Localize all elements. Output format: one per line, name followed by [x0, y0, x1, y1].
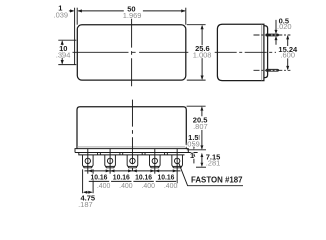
dimension 50 arrowheads — [77, 9, 186, 12]
terminal bottom extension for 7.15 — [196, 166, 206, 168]
dimension 20.5 top extension — [187, 105, 206, 107]
dimension 10 arrowheads — [61, 40, 64, 64]
mounting plate — [75, 149, 198, 153]
dimension 4.75 arrowheads — [83, 191, 93, 194]
terminal 2 hole — [107, 158, 112, 163]
extension line cover left above — [76, 8, 78, 25]
dimension 0.5 upper arrow — [275, 20, 277, 33]
terminal 4 hole — [152, 158, 157, 163]
terminal 5 hole — [174, 158, 179, 163]
svg-text:.400: .400 — [141, 181, 155, 190]
tab centerline bottom — [254, 69, 291, 71]
svg-text:.807: .807 — [193, 122, 208, 131]
dimension 1 leader — [69, 10, 73, 12]
svg-text:.400: .400 — [164, 181, 178, 190]
label underline 1 — [89, 180, 109, 182]
extension line body edge left — [74, 8, 76, 65]
side view body outline — [217, 24, 264, 80]
svg-text:.394: .394 — [56, 50, 71, 59]
terminal tab top (edge-on) — [266, 34, 279, 36]
svg-text:1: 1 — [190, 151, 194, 160]
terminal 1 center extension — [87, 149, 89, 174]
top view body outline — [77, 25, 186, 80]
dimension 25.6 extension lines — [187, 25, 206, 80]
dimension 10.16 chain line — [85, 170, 181, 172]
cover bottom edge (gray) — [77, 146, 186, 148]
svg-text:.059: .059 — [185, 139, 200, 148]
svg-text:.039: .039 — [53, 10, 68, 19]
dimension 7.15 line — [201, 157, 203, 163]
dimension 10 extension ticks — [58, 40, 76, 64]
cover edge line (gray) — [261, 25, 263, 81]
dimension 0.5 lower arrow — [275, 37, 277, 45]
dimension 10 line — [61, 41, 63, 63]
dim 1.5 lower arrow V1 — [193, 157, 195, 164]
dimension 15.24 line upper — [287, 36, 289, 46]
dimension 25.6 arrowheads — [201, 25, 204, 80]
terminal 3 shoulder line — [128, 165, 137, 167]
svg-text:FASTON #187: FASTON #187 — [191, 174, 243, 184]
terminal 1 outline — [83, 155, 94, 168]
dimension 25.6 line — [201, 26, 203, 79]
standoff tick pair 3 — [142, 153, 145, 155]
terminal 4 shoulder line — [150, 165, 159, 167]
terminal 2 center extension — [109, 149, 111, 174]
horizontal centerline side view — [215, 51, 276, 53]
svg-text:.281: .281 — [206, 158, 221, 167]
dimension 4.75 extension lines — [83, 169, 94, 193]
label underline 2 — [111, 180, 131, 182]
terminal 4 center extension — [154, 149, 156, 174]
svg-text:.400: .400 — [119, 181, 133, 190]
terminal 5 center extension — [176, 149, 178, 188]
standoff tick pair 2 — [120, 153, 123, 155]
extension line right above — [185, 8, 187, 25]
tab centerline top — [254, 34, 291, 36]
terminal 2 outline — [105, 155, 116, 168]
standoff strip — [79, 153, 185, 155]
dimension 1 arrowhead — [70, 9, 75, 12]
terminal 1 hole — [85, 158, 90, 163]
vertical centerline front view — [131, 100, 133, 175]
vertical centerline — [131, 19, 133, 87]
terminal 3 outline — [127, 155, 138, 168]
svg-text:.020: .020 — [277, 22, 292, 31]
terminal tab bottom (edge-on) — [266, 69, 279, 71]
label underline 4 — [156, 180, 176, 182]
terminal 4 outline — [150, 155, 161, 168]
terminal 5 shoulder line — [173, 165, 182, 167]
FASTON leader line — [179, 163, 243, 186]
terminal 2 shoulder line — [106, 165, 115, 167]
svg-text:.400: .400 — [97, 181, 111, 190]
dimension 50 line — [78, 10, 185, 12]
svg-text:1.969: 1.969 — [123, 11, 142, 20]
dimension 15.24 line lower — [287, 58, 289, 69]
extension line H1 — [187, 149, 206, 151]
svg-text:1.008: 1.008 — [193, 50, 212, 59]
dim 1.5 upper arrow V1 — [193, 144, 195, 146]
mounting plate edge-on — [264, 26, 268, 78]
dimension 1.5 line segment — [198, 135, 200, 140]
dimension 20.5 arrowheads — [200, 106, 203, 150]
standoff tick pair 1 — [98, 153, 101, 155]
label underline 3 — [133, 180, 153, 182]
dimension 4.75 line — [84, 191, 92, 193]
terminal 3 hole — [130, 158, 135, 163]
horizontal centerline — [73, 51, 189, 53]
dimension 20.5 line — [201, 107, 203, 148]
chain arrowheads — [88, 169, 177, 172]
front view body outline — [77, 107, 186, 149]
terminal 5 outline — [172, 155, 183, 168]
terminal 1 shoulder line — [83, 165, 92, 167]
svg-text:.187: .187 — [78, 200, 93, 209]
svg-text:.600: .600 — [280, 51, 295, 60]
standoff tick pair 4 — [165, 153, 168, 155]
